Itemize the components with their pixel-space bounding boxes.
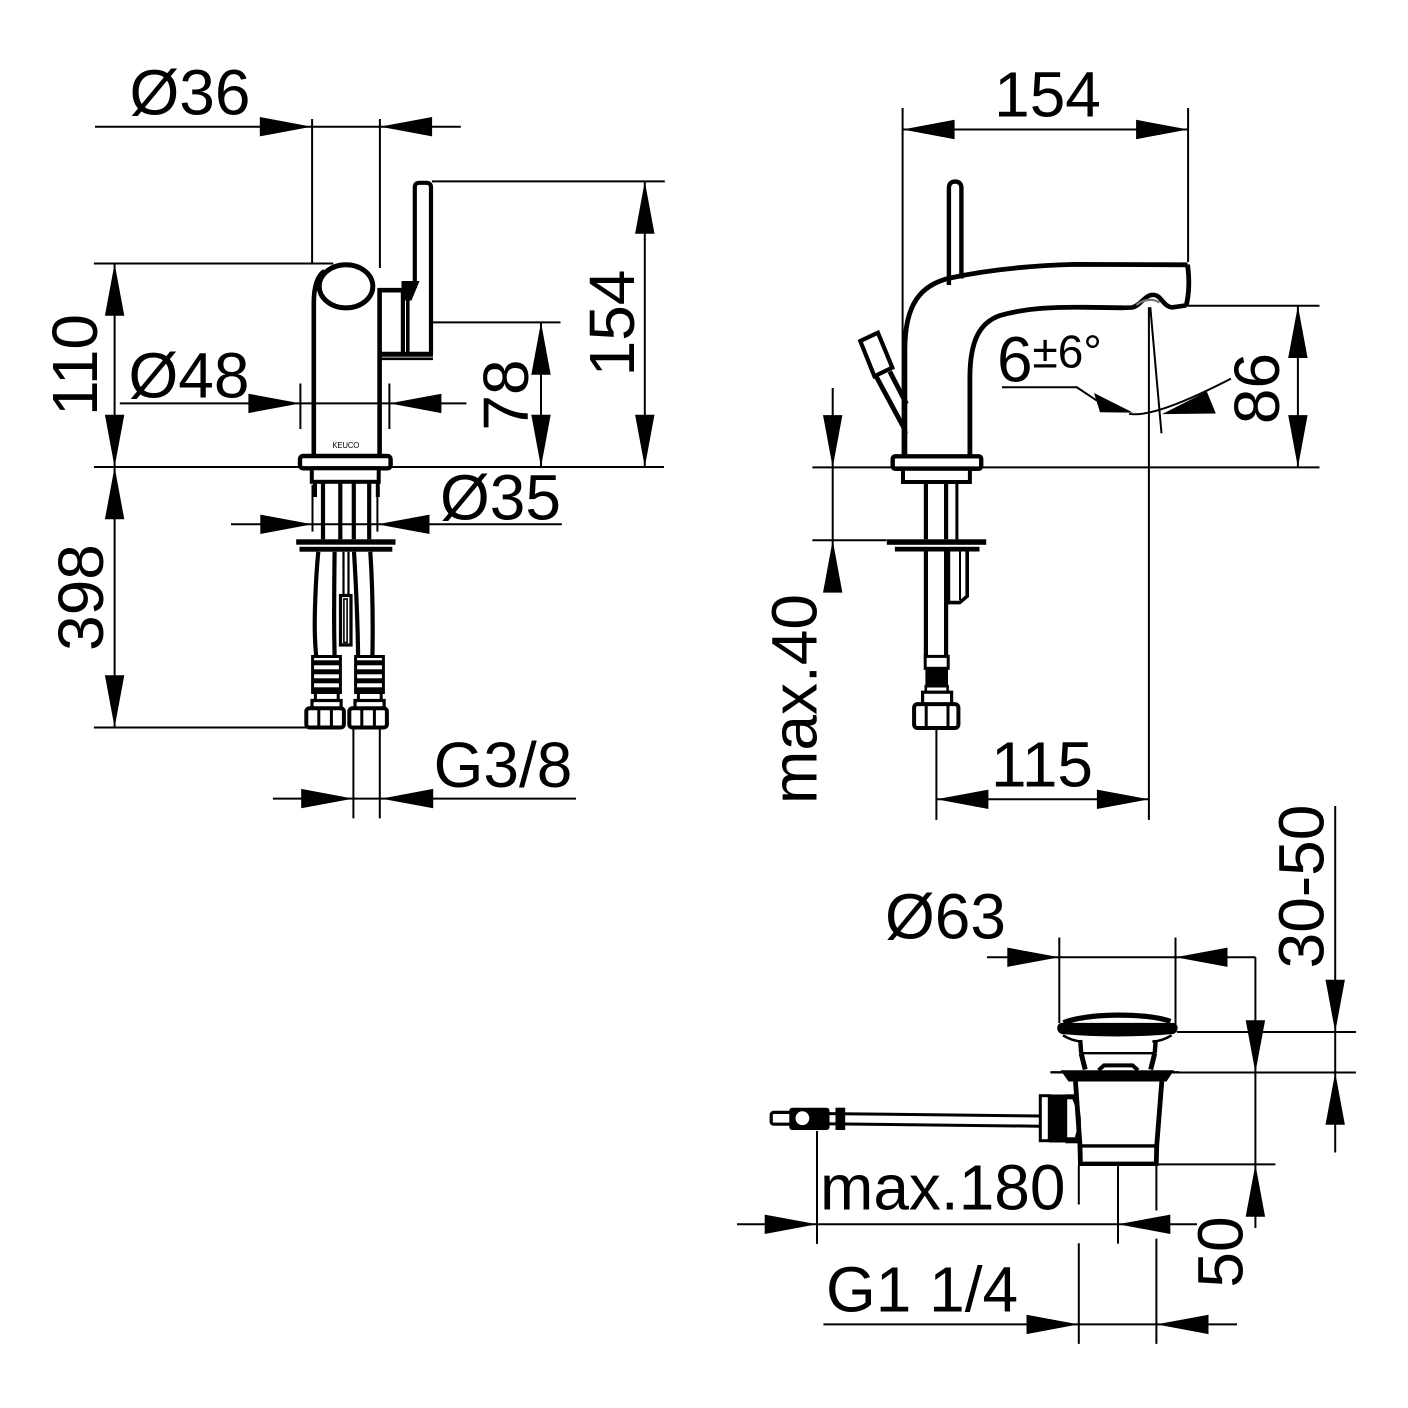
body bottom edge (1078, 1162, 1159, 1166)
left hose collar (315, 693, 338, 701)
faucet body right edge + lever connector (380, 290, 403, 456)
svg-text:max.40: max.40 (759, 594, 831, 804)
mounting stud below washer (948, 552, 967, 603)
dimension line max.40 (832, 388, 834, 589)
svg-text:115: 115 (991, 729, 1093, 801)
lever bottom second line (380, 357, 433, 360)
pivot nub top (1066, 1094, 1076, 1099)
dimension Ø35 (231, 523, 562, 525)
pull rod front (342, 552, 344, 596)
lever plate right edge (406, 295, 410, 356)
rod left tip (771, 1112, 792, 1124)
pull rod stem side (877, 377, 906, 434)
svg-text:154: 154 (994, 59, 1101, 131)
faucet body left edge (314, 271, 325, 457)
extension line bottom (398 lower bound) (94, 727, 310, 729)
cap underside thin curves (1063, 1035, 1172, 1041)
cap ellipse (319, 265, 373, 308)
dimension line max.180 (737, 1223, 1197, 1225)
left hose (315, 552, 319, 657)
drain cap dome (1064, 1015, 1171, 1023)
base plate side (893, 456, 982, 469)
rod clevis (filled) (789, 1108, 829, 1130)
hose collar side (923, 692, 952, 704)
hose nut side (914, 704, 958, 728)
pivot nub bottom (1066, 1137, 1079, 1143)
G1 1/4 pipe extension lines (1078, 1166, 1080, 1344)
extension lines Ø35 (312, 485, 314, 532)
flange thin wings (1050, 1071, 1179, 1073)
aerator inner thin line (1137, 300, 1160, 305)
dimension line 30-50 (1334, 806, 1336, 1153)
dimension line 154 side (903, 129, 1189, 131)
flange (filled) (1061, 1070, 1174, 1081)
svg-text:Ø35: Ø35 (440, 462, 561, 534)
extension lines Ø48 (299, 384, 301, 430)
dimension Ø36 line (95, 126, 461, 128)
arrow 398 bottom (105, 675, 124, 727)
svg-text:Ø48: Ø48 (129, 340, 250, 412)
svg-text:±6°: ±6° (1033, 326, 1102, 378)
arrow 110 bottom (105, 415, 124, 467)
dimension line Ø63 (987, 956, 1256, 958)
shank rod lines (313, 482, 317, 497)
angle tilted line (1150, 307, 1161, 433)
extension lines G3/8 (352, 729, 354, 818)
right hose fitting ribs (356, 657, 384, 693)
right hose nut (349, 708, 387, 727)
svg-text:86: 86 (1221, 353, 1293, 424)
lever rod (791, 1113, 1040, 1116)
drain body sides (1076, 1082, 1081, 1146)
hose fitting side: black band (925, 668, 948, 686)
extension max.180 left (816, 1131, 818, 1244)
extension line 154 right (1187, 108, 1189, 262)
dimension line 50 (1254, 957, 1256, 1228)
arrow 398 top (105, 467, 124, 519)
lever plate left edge (401, 290, 405, 356)
base collar front (312, 468, 379, 482)
pull rod end block (341, 596, 352, 646)
washer side (887, 539, 986, 545)
drain centerline below body (1117, 1166, 1119, 1244)
shank side lines (924, 482, 928, 539)
angle leader arrowhead (1094, 393, 1133, 413)
extension: cap rim right (30-50 top) (1177, 1031, 1356, 1033)
hose fitting side: upper sleeve (925, 656, 948, 668)
svg-text:398: 398 (45, 544, 117, 651)
neck lower (1081, 1054, 1085, 1070)
spout tip right edge (1186, 265, 1188, 306)
right hose nut flange (355, 701, 384, 709)
svg-text:Ø63: Ø63 (885, 881, 1006, 953)
svg-text:KEUCO: KEUCO (332, 441, 359, 450)
clevis hole (796, 1111, 810, 1125)
svg-text:G1 1/4: G1 1/4 (826, 1254, 1018, 1326)
svg-text:50: 50 (1185, 1216, 1257, 1287)
svg-text:30-50: 30-50 (1266, 805, 1338, 969)
aerator bump (1123, 295, 1186, 308)
angle leader line (1002, 387, 1097, 400)
ball socket arc (1074, 1098, 1080, 1138)
handle stick side (949, 182, 962, 285)
dimension line G1 1/4 (823, 1323, 1237, 1325)
pull rod stem second line (890, 372, 907, 405)
svg-text:154: 154 (576, 270, 648, 377)
dimension line 78 (540, 322, 542, 467)
spout outer curve (905, 264, 1188, 456)
arrow 110 top (105, 264, 124, 316)
countertop line side (812, 466, 1319, 468)
extension line top of body (110 upper bound) (94, 263, 333, 265)
extension line 78 top (432, 321, 561, 323)
handle bar outline (415, 183, 431, 355)
neck upper (1080, 1040, 1081, 1054)
arrow Ø36 left (260, 117, 312, 136)
pull rod knob side (860, 333, 892, 377)
extension line Ø36 right (379, 119, 381, 268)
washer-top extension line (max.40 bottom) (812, 539, 886, 541)
seal ridge (1099, 1065, 1139, 1070)
pivot cap (1040, 1096, 1049, 1141)
extension: flange right (30-50 bottom / 50 top) (1174, 1072, 1356, 1074)
left hose nut (306, 708, 344, 727)
base collar side (903, 469, 970, 482)
body lower section (1078, 1146, 1083, 1163)
extension: body bottom right (50 bottom) (1157, 1163, 1276, 1165)
spout inner curve (970, 307, 1123, 456)
svg-text:G3/8: G3/8 (434, 729, 573, 801)
left hose fitting ribs (313, 657, 341, 693)
svg-text:78: 78 (470, 359, 542, 430)
countertop line front view (94, 466, 664, 468)
rod collar tick (836, 1108, 846, 1130)
right hose collar (358, 693, 381, 701)
extension line 154 left (902, 108, 904, 456)
extension line 154 top (front) (432, 180, 665, 182)
spout tip extension line (86 top) (1186, 305, 1320, 307)
hose fitting side: white gap (926, 686, 948, 692)
svg-text:Ø36: Ø36 (130, 57, 251, 129)
right hose (354, 552, 358, 657)
extension line Ø36 left (311, 119, 313, 264)
lever bottom connector (378, 352, 433, 357)
extension lines Ø63 (1058, 938, 1060, 1024)
handle wedge joint (402, 281, 420, 301)
dimension Ø48 (120, 402, 467, 404)
svg-text:max.180: max.180 (820, 1152, 1065, 1224)
washer under counter front (296, 539, 395, 544)
pivot block (filled) (1049, 1095, 1067, 1143)
dimension line 154 front (644, 181, 646, 467)
base plate front (300, 456, 391, 468)
aerator centerline (115 right ext) (1148, 307, 1150, 820)
svg-text:110: 110 (39, 314, 111, 416)
svg-text:6: 6 (997, 324, 1033, 396)
left hose nut flange (312, 701, 341, 709)
extension line below nut (115 left) (935, 729, 937, 820)
dimension line 110/398 vertical (114, 264, 116, 728)
dimension line 115 (936, 798, 1149, 800)
angle arrow right (1162, 392, 1216, 415)
arrow Ø36 right (380, 117, 432, 136)
drain cap rim (filled) (1057, 1023, 1177, 1037)
angle arc (1129, 379, 1231, 415)
body mid line (1080, 1144, 1157, 1147)
dimension line 86 (1297, 306, 1299, 468)
threaded rod side (924, 552, 928, 657)
dimension G3/8 (273, 798, 576, 800)
